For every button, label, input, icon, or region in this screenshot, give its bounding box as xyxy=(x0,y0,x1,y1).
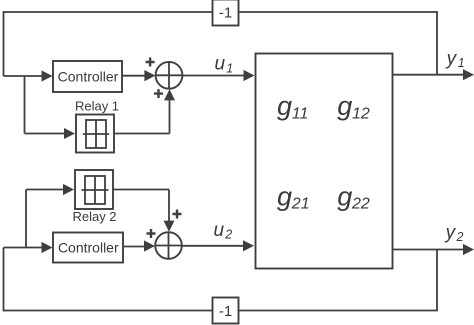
svg-text:1: 1 xyxy=(226,61,233,75)
svg-text:11: 11 xyxy=(292,105,309,122)
wire controller 2 output xyxy=(123,240,155,251)
svg-text:21: 21 xyxy=(291,196,310,213)
label y1 xyxy=(445,48,465,70)
wire controller 1 input xyxy=(4,70,53,81)
summing junction 1 xyxy=(156,62,183,89)
wire relay 1 input xyxy=(25,128,76,139)
svg-text:-1: -1 xyxy=(219,5,232,22)
wire controller 1 output xyxy=(122,70,155,81)
wire relay 2 down into summing junction 2 xyxy=(164,190,175,232)
label Relay 2 xyxy=(72,209,116,224)
svg-text:2: 2 xyxy=(456,230,464,244)
wire y2 output xyxy=(393,244,474,255)
svg-text:Controller: Controller xyxy=(58,69,119,85)
label g22 xyxy=(337,181,370,212)
wire relay 1 up into summing junction 1 xyxy=(164,89,175,133)
svg-text:u: u xyxy=(214,220,225,241)
svg-text:y: y xyxy=(445,48,458,69)
svg-text:g: g xyxy=(337,181,352,211)
plus sign sum1 lower xyxy=(154,89,163,98)
svg-text:Relay 2: Relay 2 xyxy=(72,209,116,224)
svg-text:Controller: Controller xyxy=(58,240,119,256)
wire bottom feedback right segment xyxy=(239,310,438,312)
summing junction 2 xyxy=(155,232,182,259)
svg-text:g: g xyxy=(277,181,292,211)
svg-text:y: y xyxy=(444,222,457,243)
svg-text:22: 22 xyxy=(351,196,370,213)
svg-text:2: 2 xyxy=(224,228,232,242)
wire relay 2 output xyxy=(113,189,169,191)
label g11 xyxy=(277,91,308,122)
relay 1 icon xyxy=(83,120,109,148)
wire top feedback left segment xyxy=(4,11,213,13)
wire bottom feedback right vertical (from y2 tap) xyxy=(436,250,438,311)
svg-text:Relay 1: Relay 1 xyxy=(75,99,119,114)
wire y1 output xyxy=(393,69,474,80)
wire bottom feedback left vertical xyxy=(3,248,5,312)
plus sign sum1 upper xyxy=(146,58,155,67)
label g21 xyxy=(277,181,310,212)
label y2 xyxy=(444,222,464,244)
wire u2 to plant xyxy=(182,240,254,251)
block Controller 1 xyxy=(53,61,122,92)
svg-text:g: g xyxy=(337,91,352,121)
wire top feedback right segment xyxy=(239,11,438,13)
relay 2 icon xyxy=(82,176,109,204)
label Relay 1 xyxy=(75,99,119,114)
wire branch down to relay 1 xyxy=(24,76,26,134)
wire relay 1 output xyxy=(114,133,170,135)
wire branch up to relay 2 xyxy=(25,190,27,248)
block Relay 2 xyxy=(75,170,113,209)
wire u1 to plant xyxy=(182,70,254,81)
label u2 xyxy=(214,220,233,242)
gain block -1 (bottom) xyxy=(213,298,239,324)
block Controller 2 xyxy=(53,233,123,263)
plus sign sum2 upper xyxy=(173,210,182,219)
block Relay 1 xyxy=(76,115,114,153)
wire bottom feedback left segment xyxy=(4,310,213,312)
wire top feedback left vertical xyxy=(3,11,5,76)
label g12 xyxy=(337,91,370,122)
svg-text:12: 12 xyxy=(352,105,370,122)
plus sign sum2 lower xyxy=(147,229,156,238)
wire top feedback right vertical (from y1 tap) xyxy=(436,11,438,75)
svg-text:-1: -1 xyxy=(219,303,232,320)
svg-text:1: 1 xyxy=(458,56,465,70)
svg-text:g: g xyxy=(277,91,292,121)
wire relay 2 input xyxy=(26,184,74,195)
svg-text:u: u xyxy=(215,54,226,75)
label u1 xyxy=(215,54,234,76)
plant block G xyxy=(256,54,393,269)
wire controller 2 input xyxy=(4,242,53,253)
gain block -1 (top) xyxy=(213,0,239,26)
